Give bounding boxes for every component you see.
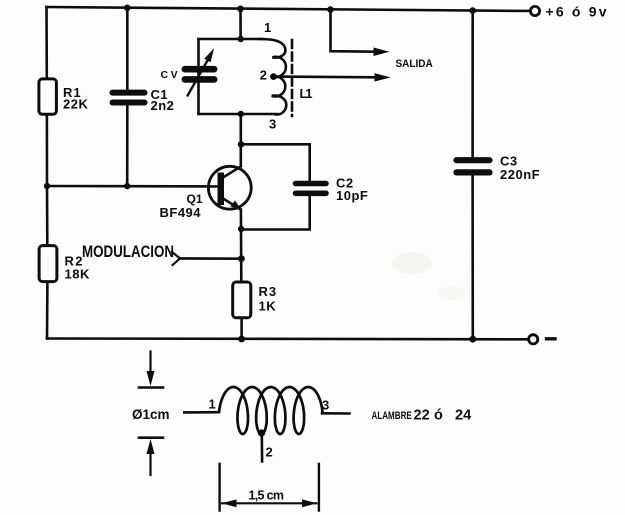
svg-text:ALAMBRE: ALAMBRE bbox=[372, 410, 413, 423]
dimension arrow diameter bottom bbox=[139, 438, 163, 475]
wire coil tap 2 bbox=[260, 433, 263, 461]
wire coil lead 1 bbox=[184, 411, 219, 414]
wire modulation bbox=[180, 257, 241, 260]
arrow modulation chevron bbox=[172, 252, 180, 265]
transistor Q1 body bbox=[208, 166, 251, 209]
svg-text:220nF: 220nF bbox=[500, 167, 540, 182]
wire tank top bbox=[199, 38, 263, 41]
arrowhead tap2 output bbox=[375, 73, 391, 82]
svg-text:1: 1 bbox=[209, 397, 216, 412]
dimension arrow diameter top bbox=[139, 352, 163, 388]
svg-text:3: 3 bbox=[322, 398, 329, 413]
wire C3 lower bbox=[471, 176, 474, 339]
svg-text:1: 1 bbox=[264, 20, 271, 35]
node bottom rail R3 junction bbox=[238, 336, 245, 343]
capacitor C3 bbox=[457, 160, 490, 172]
svg-text:CV: CV bbox=[161, 69, 181, 81]
node top rail C1 branch bbox=[124, 5, 131, 12]
capacitor CV plates bbox=[185, 69, 214, 79]
dashed core line bbox=[291, 40, 294, 116]
node top rail tank branch bbox=[237, 6, 244, 13]
capacitor CV arrow bbox=[188, 48, 215, 95]
wire left rail lower bbox=[46, 283, 49, 338]
svg-text:MODULACION: MODULACION bbox=[82, 243, 174, 262]
wire collector upper bbox=[240, 114, 243, 166]
wire top supply rail bbox=[47, 7, 536, 11]
svg-text:BF494: BF494 bbox=[160, 205, 202, 220]
transistor Q1 emitter stroke bbox=[223, 199, 240, 209]
svg-text:3: 3 bbox=[269, 116, 276, 131]
svg-text:22ó24: 22ó24 bbox=[414, 408, 472, 424]
node tank bottom junction bbox=[238, 111, 244, 117]
dimension extension line right bbox=[318, 464, 320, 511]
svg-text:Ø1cm: Ø1cm bbox=[132, 407, 170, 422]
wire bottom rail bbox=[47, 337, 528, 340]
wire left rail mid bbox=[46, 117, 49, 245]
transistor Q1 collector stroke bbox=[223, 167, 241, 178]
dimension extension line left bbox=[218, 464, 220, 511]
node bottom rail C3 junction bbox=[469, 336, 476, 343]
resistor R2 bbox=[39, 246, 57, 282]
node C2 bottom junction bbox=[238, 226, 244, 232]
wire tank feed bbox=[239, 9, 242, 39]
arrowhead emitter bbox=[231, 201, 242, 211]
wire C3 upper bbox=[471, 11, 474, 157]
wire C2 top branch bbox=[241, 144, 310, 180]
svg-text:2n2: 2n2 bbox=[151, 98, 175, 113]
node L1 tap 2 bbox=[270, 73, 277, 80]
capacitor C2 bbox=[296, 184, 327, 194]
wire tank bottom bbox=[199, 113, 278, 116]
svg-text:SALIDA: SALIDA bbox=[396, 57, 434, 70]
node base-R2 junction bbox=[44, 183, 50, 189]
wire left rail upper bbox=[45, 7, 48, 77]
dimension arrow 1.5cm bbox=[222, 499, 318, 507]
svg-text:2: 2 bbox=[266, 445, 273, 460]
svg-text:10pF: 10pF bbox=[336, 188, 368, 203]
wire C1 upper bbox=[126, 8, 129, 90]
node coil tap 2 bbox=[258, 429, 265, 436]
svg-text:R3: R3 bbox=[259, 284, 278, 299]
node tank top junction bbox=[238, 36, 244, 42]
node modulation junction bbox=[238, 255, 245, 262]
inductor L1 symbol bbox=[259, 39, 286, 115]
wire emitter bbox=[240, 210, 243, 281]
arrowhead salida bbox=[374, 48, 390, 57]
wire C1 lower bbox=[126, 106, 129, 187]
node top rail C3 branch bbox=[469, 7, 476, 14]
node C2 top junction bbox=[238, 141, 244, 147]
svg-text:Q1: Q1 bbox=[187, 192, 203, 206]
svg-text:1K: 1K bbox=[259, 299, 277, 314]
wire coil lead 3 bbox=[322, 412, 350, 415]
node base-C1 junction bbox=[124, 183, 130, 189]
transistor Q1 base bar bbox=[218, 173, 225, 206]
inductor coil drawing bbox=[219, 387, 322, 434]
wire C2 bottom branch bbox=[241, 196, 310, 229]
label minus sign bbox=[547, 337, 556, 340]
terminal negative bbox=[529, 335, 538, 344]
resistor R3 bbox=[233, 282, 251, 318]
svg-text:1,5 cm: 1,5 cm bbox=[249, 489, 285, 503]
wire tap2 to output bbox=[274, 75, 376, 78]
terminal positive supply bbox=[530, 6, 539, 15]
svg-text:2: 2 bbox=[260, 68, 267, 83]
wire base bbox=[47, 185, 218, 188]
wire tank left bbox=[197, 39, 200, 114]
capacitor C1 bbox=[113, 93, 145, 103]
svg-text:L1: L1 bbox=[300, 86, 313, 101]
resistor R1 bbox=[39, 79, 57, 114]
node top rail salida branch bbox=[327, 6, 334, 13]
svg-text:22K: 22K bbox=[63, 97, 88, 112]
svg-text:18K: 18K bbox=[65, 267, 90, 282]
wire R3 bottom bbox=[240, 319, 243, 339]
wire salida branch bbox=[331, 10, 375, 52]
